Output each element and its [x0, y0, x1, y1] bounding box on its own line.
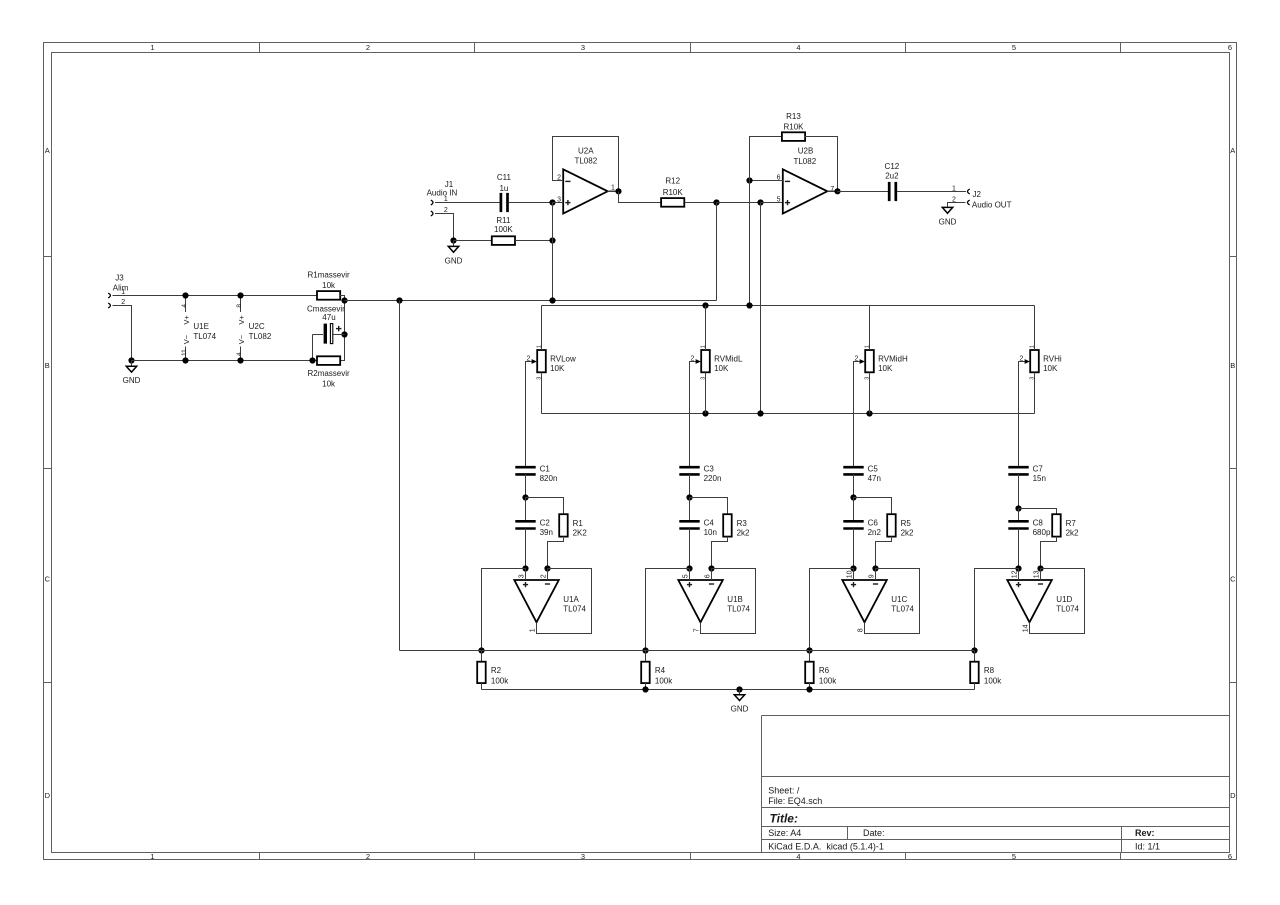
wire U1C feedback loop [865, 569, 920, 634]
wire RVHi pin3 to bottom rail [1034, 372, 1036, 413]
junction U2A pin3 node [549, 199, 555, 205]
svg-text:R7: R7 [1066, 519, 1077, 528]
wire U1A feedback loop [537, 569, 592, 634]
capacitor C5 [843, 467, 863, 474]
svg-text:U2C: U2C [249, 322, 265, 331]
svg-text:10k: 10k [322, 380, 336, 389]
wire top rail to RVHi pin1 [1034, 306, 1036, 351]
wire U1C + input stub [853, 569, 855, 581]
wire to ground [739, 690, 741, 695]
wire C7 to node [1018, 474, 1020, 508]
svg-text:39n: 39n [540, 528, 553, 537]
svg-text:100k: 100k [655, 677, 673, 686]
frame column tick top [259, 43, 261, 53]
potentiometer RVMidL [691, 345, 743, 380]
svg-text:7: 7 [830, 186, 834, 193]
svg-text:4: 4 [181, 304, 188, 308]
svg-text:2u2: 2u2 [885, 172, 899, 181]
frame column tick top [1120, 43, 1122, 53]
J1 pin 1 end [431, 200, 433, 205]
svg-text:2k2: 2k2 [1066, 529, 1079, 538]
svg-text:2: 2 [541, 574, 548, 578]
frame column tick bottom [1120, 853, 1122, 860]
wire U2B pin5 down to pot bottom rail [760, 203, 762, 414]
svg-text:2n2: 2n2 [868, 528, 882, 537]
wire divider midpoint vertical [340, 296, 345, 361]
wire U2A output [608, 190, 619, 192]
junction U2B pin5 node [757, 199, 763, 205]
junction bias bus / U2A pin3 [549, 297, 555, 303]
ground at EQ rail [734, 695, 744, 701]
junction U1E V- [182, 357, 188, 363]
svg-text:4: 4 [796, 852, 800, 861]
svg-text:R11: R11 [496, 216, 511, 225]
U2C V+ pin stub [240, 296, 242, 312]
ground at J3 [126, 366, 136, 372]
wire top rail to RVMidH pin1 [869, 306, 871, 351]
J2 pin 2 end [968, 200, 970, 205]
resistor R2 [477, 662, 486, 683]
op-amp U1B [678, 574, 750, 632]
power unit U1E [181, 296, 217, 361]
junction bottom rail / U2B pin5 [757, 410, 763, 416]
svg-text:TL074: TL074 [891, 605, 914, 614]
wire RVHi wiper down [1019, 362, 1025, 467]
junction U2C V+ [237, 292, 243, 298]
svg-text:TL082: TL082 [793, 157, 816, 166]
capacitor C12 [889, 182, 896, 201]
wire node to C6 [853, 498, 855, 522]
svg-text:R1: R1 [573, 519, 584, 528]
svg-text:4: 4 [236, 352, 243, 356]
capacitor C2 [515, 521, 535, 528]
wire C2 to op-amp input [525, 528, 527, 568]
svg-text:1: 1 [150, 43, 154, 52]
svg-text:R13: R13 [786, 112, 801, 121]
wire C4 to op-amp input [689, 528, 691, 568]
wire U2A feedback loop [553, 137, 619, 192]
wire pot top rail [542, 305, 1035, 307]
connector J3 [108, 273, 128, 308]
junction ground rail / GND [736, 686, 742, 692]
capacitor C6 [843, 521, 863, 528]
junction C3/C4/R3 [686, 494, 692, 500]
wire U1D + input stub [1018, 569, 1020, 581]
op-amp U1C [842, 570, 914, 632]
junction C1/C2/R1 [522, 494, 528, 500]
svg-text:1: 1 [530, 628, 537, 632]
svg-text:1u: 1u [499, 184, 508, 193]
wire U2B pin6 down to pot top rail [749, 181, 751, 306]
svg-text:R10K: R10K [783, 122, 804, 131]
svg-text:Audio OUT: Audio OUT [972, 201, 1012, 210]
frame row tick left [44, 682, 52, 684]
svg-text:8: 8 [858, 628, 865, 632]
wire R11 to node [515, 240, 553, 242]
svg-text:V+: V+ [182, 315, 191, 325]
capacitor C7 [1008, 467, 1028, 474]
svg-text:15n: 15n [1033, 474, 1046, 483]
wire Cmassevir left down [312, 335, 314, 361]
svg-text:V−: V− [182, 334, 191, 344]
junction U2A output [615, 188, 621, 194]
wire J1 pin1 to C11 [435, 202, 499, 204]
svg-text:File: EQ4.sch: File: EQ4.sch [768, 796, 822, 806]
resistor R1 [559, 514, 568, 536]
svg-text:TL074: TL074 [193, 332, 216, 341]
wire rail to R4 [645, 651, 647, 662]
frame column tick bottom [259, 853, 261, 860]
resistor R13 [782, 132, 805, 141]
svg-text:U2B: U2B [798, 147, 814, 156]
op-amp U1A [514, 574, 586, 632]
svg-text:680p: 680p [1033, 528, 1051, 537]
wire U2A pin3 stub [553, 202, 564, 204]
wire node down to bias bus [716, 203, 718, 301]
wire node to R1 [526, 498, 564, 515]
svg-text:2: 2 [366, 852, 370, 861]
svg-text:GND: GND [445, 256, 463, 265]
frame row tick left [44, 256, 52, 258]
wire RVMidH pin3 to bottom rail [869, 372, 871, 413]
U1E V- pin stub [185, 347, 187, 361]
capacitor C1 [515, 467, 535, 474]
svg-text:9: 9 [869, 574, 876, 578]
wire U1B feedback loop [701, 569, 756, 634]
wire node to C8 [1018, 509, 1020, 522]
U2C V- pin stub [240, 347, 242, 361]
wire RVMidL wiper down [690, 362, 696, 467]
wire U1B - input stub [711, 569, 713, 581]
ground at J2 [942, 207, 952, 213]
svg-text:10k: 10k [322, 281, 336, 290]
svg-text:C12: C12 [885, 162, 900, 171]
svg-text:7: 7 [694, 628, 701, 632]
svg-text:GND: GND [731, 705, 749, 714]
wire to ground [131, 361, 133, 367]
junction top rail / RVMidL [702, 302, 708, 308]
svg-text:5: 5 [777, 196, 781, 203]
op-amp U2B [777, 147, 835, 214]
svg-text:Title:: Title: [770, 811, 798, 825]
svg-text:Audio IN: Audio IN [427, 188, 458, 197]
svg-text:U1D: U1D [1056, 595, 1072, 604]
svg-text:100k: 100k [491, 677, 509, 686]
svg-text:R3: R3 [737, 519, 748, 528]
capacitor C4 [679, 521, 699, 528]
svg-text:R1massevir: R1massevir [307, 271, 350, 280]
svg-text:10K: 10K [1043, 364, 1058, 373]
svg-text:U1B: U1B [727, 595, 743, 604]
svg-text:820n: 820n [540, 474, 558, 483]
junction U1C bias rail [806, 647, 812, 653]
wire ground return rail [482, 689, 975, 691]
connector J1 [427, 180, 458, 216]
wire C3 to node [689, 474, 691, 497]
svg-text:2: 2 [366, 43, 370, 52]
svg-text:5: 5 [683, 574, 690, 578]
svg-text:GND: GND [123, 376, 141, 385]
frame column tick top [474, 43, 476, 53]
wire rail to R8 [974, 651, 976, 662]
wire R5 to inverting input [876, 537, 892, 569]
svg-text:1: 1 [952, 185, 956, 192]
svg-text:R2: R2 [491, 666, 502, 675]
capacitor Cmassevir [307, 304, 345, 343]
wire U1A + input to bias rail [482, 569, 526, 651]
svg-text:C7: C7 [1033, 464, 1044, 473]
frame row tick left [44, 468, 52, 470]
capacitor C11 [501, 193, 508, 212]
wire U1B + input to bias rail [646, 569, 690, 651]
junction Cmassevir / 0V rail [309, 357, 315, 363]
frame row tick right [1230, 468, 1237, 470]
svg-text:47u: 47u [322, 313, 335, 322]
wire node to R7 [1019, 509, 1057, 515]
svg-text:R5: R5 [901, 519, 912, 528]
capacitor C3 [679, 467, 699, 474]
J2 pin 1 end [968, 189, 970, 194]
wire pot bottom rail [542, 413, 1035, 415]
svg-text:RVHi: RVHi [1043, 355, 1062, 364]
wire U1A - input stub [547, 569, 549, 581]
svg-text:KiCad E.D.A. kicad (5.1.4)-1: KiCad E.D.A. kicad (5.1.4)-1 [768, 842, 884, 852]
svg-text:C2: C2 [540, 519, 551, 528]
potentiometer RVHi [1020, 345, 1062, 380]
svg-text:GND: GND [939, 217, 957, 226]
svg-text:J2: J2 [973, 190, 982, 199]
svg-text:RVLow: RVLow [550, 355, 576, 364]
wire C5 to node [853, 474, 855, 497]
svg-text:C5: C5 [868, 464, 879, 473]
wire to U2B pin5 [717, 202, 761, 204]
junction U1B inverting input [708, 565, 714, 571]
J3 pin 1 end [108, 293, 110, 298]
frame column tick top [690, 43, 692, 53]
op-amp U2A [557, 147, 615, 214]
junction U1D inverting input [1037, 565, 1043, 571]
wire R7 to inverting input [1041, 537, 1057, 569]
U1E V+ pin stub [185, 296, 187, 312]
svg-text:2K2: 2K2 [573, 529, 588, 538]
resistor R3 [723, 514, 732, 536]
junction C7/C8/R7 [1015, 505, 1021, 511]
wire R4 to ground rail [645, 683, 647, 689]
svg-text:U2A: U2A [578, 147, 594, 156]
junction U1C noninverting input [850, 565, 856, 571]
resistor R4 [641, 662, 650, 683]
frame column tick bottom [690, 853, 692, 860]
svg-text:C11: C11 [497, 173, 512, 182]
svg-text:6: 6 [705, 574, 712, 578]
wire R8 to ground rail [974, 683, 976, 689]
title block [762, 716, 1230, 853]
wire RVMidL pin3 to bottom rail [705, 372, 707, 413]
wire U1D + input to bias rail [975, 569, 1019, 651]
frame column tick bottom [905, 853, 907, 860]
wire R2 to ground rail [481, 683, 483, 689]
svg-text:V+: V+ [237, 315, 246, 325]
resistor R11 [492, 236, 515, 245]
svg-text:R2massevir: R2massevir [307, 369, 350, 378]
wire C8 to op-amp input [1018, 528, 1020, 568]
svg-text:C4: C4 [704, 519, 715, 528]
svg-text:100K: 100K [494, 225, 513, 234]
svg-text:3: 3 [519, 574, 526, 578]
svg-text:Rev:: Rev: [1135, 828, 1155, 838]
svg-text:6: 6 [1228, 43, 1232, 52]
svg-text:B: B [1230, 361, 1235, 370]
junction U1B bias rail [642, 647, 648, 653]
resistor R1massevir [317, 291, 340, 300]
wire R1 to inverting input [548, 537, 564, 569]
wire rail to R2 [481, 651, 483, 662]
wire feedback left to R13 [750, 137, 783, 181]
junction U1C inverting input [872, 565, 878, 571]
svg-text:TL074: TL074 [727, 605, 750, 614]
junction bottom rail / RVMidH [866, 410, 872, 416]
svg-text:TL082: TL082 [574, 157, 597, 166]
wire node to C2 [525, 498, 527, 522]
wire J3 pin2 down [113, 306, 132, 361]
svg-text:R10K: R10K [663, 188, 684, 197]
junction R12 output node [713, 199, 719, 205]
svg-text:3: 3 [581, 852, 585, 861]
svg-text:Date:: Date: [863, 828, 885, 838]
svg-text:C8: C8 [1033, 519, 1044, 528]
svg-text:13: 13 [1034, 570, 1041, 578]
wire 0V rail [132, 360, 318, 362]
svg-text:U1A: U1A [563, 595, 579, 604]
svg-text:10: 10 [847, 570, 854, 578]
junction midpoint / bias bus [341, 297, 347, 303]
junction bottom rail / RVMidL [702, 410, 708, 416]
wire U1B + input stub [689, 569, 691, 581]
wire RVMidH wiper down [854, 362, 860, 467]
junction U1A noninverting input [522, 565, 528, 571]
junction U2B pin6 [746, 177, 752, 183]
wire node to R3 [690, 498, 728, 515]
wire V+ rail [113, 295, 318, 297]
svg-text:5: 5 [1012, 852, 1016, 861]
svg-text:10K: 10K [550, 364, 565, 373]
svg-text:C: C [45, 575, 51, 584]
wire op-amp bias rail [400, 650, 975, 652]
svg-text:R6: R6 [819, 666, 830, 675]
svg-text:Sheet: /: Sheet: / [768, 786, 800, 796]
svg-text:8: 8 [236, 304, 243, 308]
svg-text:10K: 10K [714, 364, 729, 373]
svg-text:TL074: TL074 [1056, 605, 1079, 614]
svg-text:6: 6 [1228, 852, 1232, 861]
J1 pin 2 end [431, 211, 433, 216]
junction C5/C6/R5 [850, 494, 856, 500]
svg-text:11: 11 [181, 349, 188, 356]
capacitor C8 [1008, 521, 1028, 528]
wire C1 to node [525, 474, 527, 497]
svg-text:R4: R4 [655, 666, 666, 675]
junction U1D bias rail [971, 647, 977, 653]
junction midpoint / Cmassevir [341, 331, 347, 337]
svg-text:Size: A4: Size: A4 [768, 828, 801, 838]
svg-text:C1: C1 [540, 464, 551, 473]
svg-text:10K: 10K [878, 364, 893, 373]
op-amp U1D [1007, 570, 1079, 632]
wire U1D - input stub [1040, 569, 1042, 581]
svg-text:Id: 1/1: Id: 1/1 [1135, 842, 1160, 852]
junction J1 pin2 / R11 / GND [450, 237, 456, 243]
wire J2 pin2 to ground [948, 203, 966, 208]
wire RVLow pin3 to bottom rail [541, 372, 543, 413]
svg-text:100k: 100k [984, 677, 1002, 686]
svg-text:J3: J3 [115, 273, 124, 282]
junction U2B output [834, 188, 840, 194]
connector J2 [952, 185, 1012, 209]
junction ground rail / R6 [806, 686, 812, 692]
junction U1B noninverting input [686, 565, 692, 571]
wire node to C4 [689, 498, 691, 522]
frame row tick right [1230, 682, 1237, 684]
svg-text:1: 1 [611, 185, 615, 192]
wire U1C - input stub [875, 569, 877, 581]
svg-text:R12: R12 [665, 176, 680, 185]
junction U1A bias rail [478, 647, 484, 653]
svg-text:C6: C6 [868, 519, 879, 528]
svg-text:220n: 220n [704, 474, 722, 483]
svg-text:4: 4 [796, 43, 800, 52]
svg-text:B: B [45, 361, 50, 370]
svg-text:RVMidH: RVMidH [878, 355, 908, 364]
resistor R12 [661, 198, 684, 207]
svg-text:A: A [1230, 146, 1235, 155]
frame column tick bottom [474, 853, 476, 860]
wire J1 pin2 down [435, 214, 453, 241]
svg-text:14: 14 [1023, 624, 1030, 632]
svg-text:TL074: TL074 [563, 605, 586, 614]
wire C12 to J2 pin1 [897, 191, 966, 193]
wire node to R5 [854, 498, 892, 515]
wire R13 to U2B output [805, 137, 838, 192]
svg-text:TL082: TL082 [249, 332, 272, 341]
wire U2A pin3 down to bias bus [552, 203, 554, 301]
wire U2B pin5 stub [761, 202, 783, 204]
wire U1D feedback loop [1030, 569, 1085, 634]
svg-text:U1E: U1E [193, 322, 209, 331]
svg-text:D: D [45, 791, 51, 800]
junction ground rail / R4 [642, 686, 648, 692]
wire top rail to RVLow pin1 [541, 306, 543, 351]
potentiometer RVMidH [855, 345, 908, 380]
svg-text:10n: 10n [704, 528, 717, 537]
wire R6 to ground rail [809, 683, 811, 689]
wire U2A output to R12 [619, 191, 662, 202]
junction U1A inverting input [544, 565, 550, 571]
svg-text:100k: 100k [819, 677, 837, 686]
wire C6 to op-amp input [853, 528, 855, 568]
wire rail to R6 [809, 651, 811, 662]
wire U1A + input stub [525, 569, 527, 581]
svg-text:2k2: 2k2 [901, 529, 914, 538]
resistor R2massevir [317, 356, 340, 365]
junction top rail / U2B pin6 [746, 302, 752, 308]
resistor R8 [970, 662, 979, 683]
junction R11 / pin3 vertical [549, 237, 555, 243]
wire U1C + input to bias rail [810, 569, 854, 651]
ground at J1 [448, 246, 458, 252]
svg-text:A: A [45, 146, 50, 155]
resistor R5 [887, 514, 896, 536]
wire R3 to inverting input [712, 537, 728, 569]
